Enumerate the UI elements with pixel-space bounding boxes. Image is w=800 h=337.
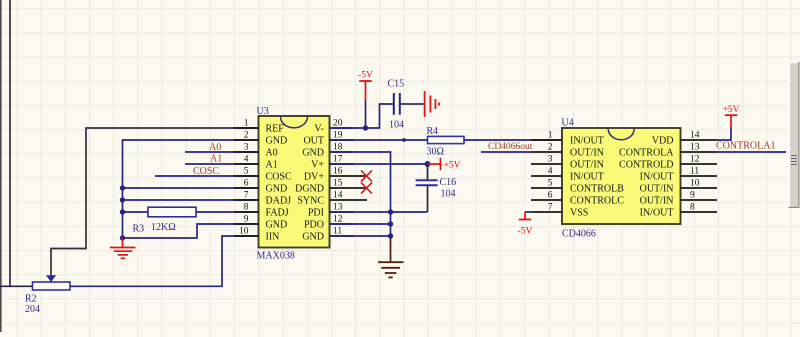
capacitor C16 [416, 164, 438, 212]
resistor R3 left wire [123, 211, 149, 213]
wire U3 pin 11 GND to ground bus [330, 235, 391, 237]
svg-text:15: 15 [333, 179, 343, 189]
U3 left pin name labels [266, 124, 292, 243]
capacitor C15 [394, 93, 400, 115]
svg-text:R4: R4 [427, 126, 439, 137]
wire net A0 to U3 pin 3 [185, 151, 259, 153]
net label A1 [210, 154, 222, 165]
R4 designator label [427, 126, 439, 137]
svg-text:20: 20 [333, 119, 343, 129]
R3 designator label [133, 224, 145, 235]
svg-text:8: 8 [244, 203, 249, 213]
svg-text:4: 4 [244, 155, 249, 165]
svg-text:R2: R2 [25, 294, 37, 305]
U4 right pin name labels [619, 136, 674, 219]
R2 designator label [25, 294, 37, 305]
svg-text:COSC: COSC [193, 166, 219, 177]
svg-text:PDO: PDO [304, 220, 324, 231]
U3 right pin name labels [295, 124, 324, 243]
R3 value label 12K ohm [151, 222, 176, 233]
junction dots on left ground bus [120, 185, 125, 240]
ground symbol (dark) below U3 [378, 238, 404, 277]
svg-text:IN/OUT: IN/OUT [570, 172, 604, 183]
IC U4 CD4066 body [562, 128, 681, 224]
svg-text:-5V: -5V [358, 71, 373, 81]
svg-text:204: 204 [25, 304, 40, 315]
svg-text:IN/OUT: IN/OUT [570, 136, 604, 147]
no-connect X on U3 pin 16 [361, 171, 372, 182]
net label CONTROLA1 [716, 141, 775, 152]
power ground symbol (red) below left bus [110, 238, 136, 258]
svg-text:12: 12 [333, 215, 343, 225]
svg-text:OUT/IN: OUT/IN [570, 160, 604, 171]
wire R4 to U4 pin 1 [464, 139, 562, 141]
svg-text:+5V: +5V [444, 161, 461, 171]
wire U3 pin 12 PDO to ground bus [330, 223, 391, 225]
svg-text:IN/OUT: IN/OUT [640, 172, 674, 183]
svg-text:VDD: VDD [652, 136, 674, 147]
svg-text:A1: A1 [210, 154, 222, 165]
svg-text:16: 16 [333, 167, 343, 177]
svg-text:DV+: DV+ [304, 172, 324, 183]
svg-text:GND: GND [302, 232, 324, 243]
svg-text:CONTROLD: CONTROLD [619, 160, 673, 171]
svg-text:DGND: DGND [295, 184, 324, 195]
wire R2 right terminal to U3 pin 10 IIN [70, 236, 259, 286]
C15 designator label [388, 79, 405, 90]
svg-text:FADJ: FADJ [266, 208, 289, 219]
svg-text:11: 11 [333, 227, 342, 237]
svg-text:CONTROLA1: CONTROLA1 [716, 141, 775, 152]
svg-text:18: 18 [333, 143, 343, 153]
svg-text:SYNC: SYNC [297, 196, 324, 207]
wire U3 pin 19 OUT to R4 [330, 139, 428, 141]
resistor R3 [148, 207, 196, 217]
svg-text:2: 2 [548, 143, 553, 153]
wire U3 pin 2 GND down vertical bus to ground [123, 140, 259, 239]
svg-text:A0: A0 [266, 148, 278, 159]
svg-text:9: 9 [244, 215, 249, 225]
U3 value label MAX038 [257, 251, 295, 262]
svg-text:10: 10 [690, 179, 700, 189]
wire vertical at left edge x=10 [9, 0, 11, 286]
svg-text:OUT/IN: OUT/IN [640, 196, 674, 207]
no-connect X on U3 pin 15 [361, 183, 372, 194]
svg-text:-5V: -5V [518, 227, 533, 237]
wire U3 pin 9 GND to ground bus [123, 224, 259, 238]
svg-text:3: 3 [244, 143, 249, 153]
svg-text:U3: U3 [257, 106, 269, 117]
scrollbar [789, 62, 800, 208]
wire bottom-left to R2 left terminal [0, 285, 33, 287]
svg-text:2: 2 [244, 131, 249, 141]
earth ground (red, rotated) right of C15 [425, 91, 439, 117]
svg-text:6: 6 [244, 179, 249, 189]
wire U3 pin 20 V- to C15 [330, 104, 394, 128]
R4 value label 30 ohm [427, 147, 444, 158]
svg-text:IIN: IIN [266, 232, 280, 243]
svg-text:C15: C15 [388, 79, 405, 90]
svg-text:17: 17 [333, 155, 343, 165]
svg-text:GND: GND [266, 136, 288, 147]
R2 value label 204 [25, 304, 40, 315]
svg-text:A0: A0 [209, 142, 221, 153]
wire U3 pin 6 GND [123, 187, 259, 189]
svg-text:PDI: PDI [308, 208, 324, 219]
svg-text:12KΩ: 12KΩ [151, 222, 176, 233]
svg-text:C16: C16 [440, 177, 457, 188]
net label A0 [209, 142, 221, 153]
wire net COSC to U3 pin 5 [155, 175, 259, 177]
svg-text:9: 9 [690, 191, 695, 201]
U4 left pin stubs 1-7 [531, 140, 562, 212]
svg-text:4: 4 [548, 167, 553, 177]
net label COSC [193, 166, 219, 177]
U3 left pin stubs 1-10 [234, 128, 259, 236]
C16 designator label [440, 177, 457, 188]
C16 value label 104 [441, 189, 456, 200]
net label CD4066out [488, 142, 533, 152]
svg-text:GND: GND [302, 148, 324, 159]
junction small at wire joint [402, 138, 406, 142]
wire U3 pin 17 V+ to +5V [330, 163, 428, 165]
svg-text:8: 8 [690, 203, 695, 213]
U4 value label CD4066 [562, 229, 596, 240]
wire U4 pin 14 VDD to +5V [717, 127, 731, 140]
power port -5V (top) [358, 71, 373, 129]
svg-text:7: 7 [548, 203, 553, 213]
svg-text:5: 5 [244, 167, 249, 177]
svg-text:IN/OUT: IN/OUT [640, 208, 674, 219]
wire U4 pin 13 CONTROLA to net CONTROLA1 [717, 151, 786, 153]
wire net CD4066out to U4 pin 2 [481, 151, 531, 153]
svg-text:5: 5 [548, 179, 553, 189]
wire net A1 to U3 pin 4 [185, 163, 259, 165]
svg-text:U4: U4 [562, 118, 574, 129]
U4 designator label [562, 118, 574, 129]
U3 right pin numbers [333, 119, 343, 237]
svg-text:V-: V- [314, 124, 324, 135]
svg-text:REF: REF [266, 124, 285, 135]
power port +5V (mid) [428, 158, 461, 171]
resistor R3 right wire to U3 pin 8 FADJ [196, 211, 259, 213]
svg-text:OUT/IN: OUT/IN [570, 148, 604, 159]
svg-text:104: 104 [441, 189, 456, 200]
svg-text:104: 104 [389, 120, 404, 131]
svg-text:OUT/IN: OUT/IN [640, 184, 674, 195]
U4 left pin name labels [570, 136, 624, 219]
svg-text:13: 13 [690, 143, 700, 153]
svg-text:MAX038: MAX038 [257, 251, 295, 262]
svg-text:COSC: COSC [266, 172, 292, 183]
svg-text:A1: A1 [266, 160, 278, 171]
svg-text:CONTROLA: CONTROLA [619, 148, 674, 159]
svg-text:30Ω: 30Ω [427, 147, 444, 158]
potentiometer R2 [33, 275, 71, 290]
resistor R4 [428, 136, 465, 143]
svg-text:CD4066: CD4066 [562, 229, 596, 240]
svg-text:10: 10 [239, 227, 249, 237]
wire U3 pin 13 PDI to C16 bottom [330, 211, 428, 213]
U4 right pin numbers [690, 131, 700, 213]
svg-text:19: 19 [333, 131, 343, 141]
junction at V+ / C16 [425, 161, 431, 167]
U3 left pin numbers [239, 119, 249, 237]
svg-text:1: 1 [244, 119, 249, 129]
C15 value label 104 [389, 120, 404, 131]
svg-text:R3: R3 [133, 224, 145, 235]
svg-text:11: 11 [690, 167, 699, 177]
svg-text:CD4066out: CD4066out [488, 142, 533, 152]
power port -5V (bottom) [518, 212, 533, 237]
svg-text:OUT: OUT [303, 136, 324, 147]
svg-text:7: 7 [244, 191, 249, 201]
U3 designator label [257, 106, 269, 117]
svg-text:14: 14 [690, 131, 700, 141]
svg-text:VSS: VSS [570, 208, 588, 219]
svg-text:GND: GND [266, 220, 288, 231]
wire U3 pin 7 DADJ [123, 199, 259, 201]
svg-text:13: 13 [333, 203, 343, 213]
svg-text:DADJ: DADJ [266, 196, 292, 207]
U4 left pin numbers [548, 131, 553, 213]
svg-text:12: 12 [690, 155, 700, 165]
IC U3 MAX038 body [259, 116, 330, 248]
svg-text:+5V: +5V [723, 105, 740, 115]
svg-text:1: 1 [548, 131, 553, 141]
wire U3 pin 1 REF to R2 wiper [51, 128, 259, 276]
svg-text:CONTROLC: CONTROLC [570, 196, 624, 207]
svg-text:14: 14 [333, 191, 343, 201]
wire U4 pin 7 VSS to -5V [525, 211, 531, 213]
U4 right pin stubs 14-8 [681, 140, 718, 212]
U3 right pin stubs 20-11 [330, 128, 368, 236]
power port +5V (right) [723, 105, 740, 127]
svg-text:GND: GND [266, 184, 288, 195]
svg-text:V+: V+ [311, 160, 324, 171]
wire C15 right to earth [400, 103, 424, 105]
svg-text:6: 6 [548, 191, 553, 201]
wire U3 pin 18 GND to right ground bus [330, 152, 391, 238]
svg-text:CONTROLB: CONTROLB [570, 184, 624, 195]
junction dots on right ground bus [388, 209, 393, 238]
junction at pin 20 / -5V [363, 125, 368, 130]
svg-text:3: 3 [548, 155, 553, 165]
